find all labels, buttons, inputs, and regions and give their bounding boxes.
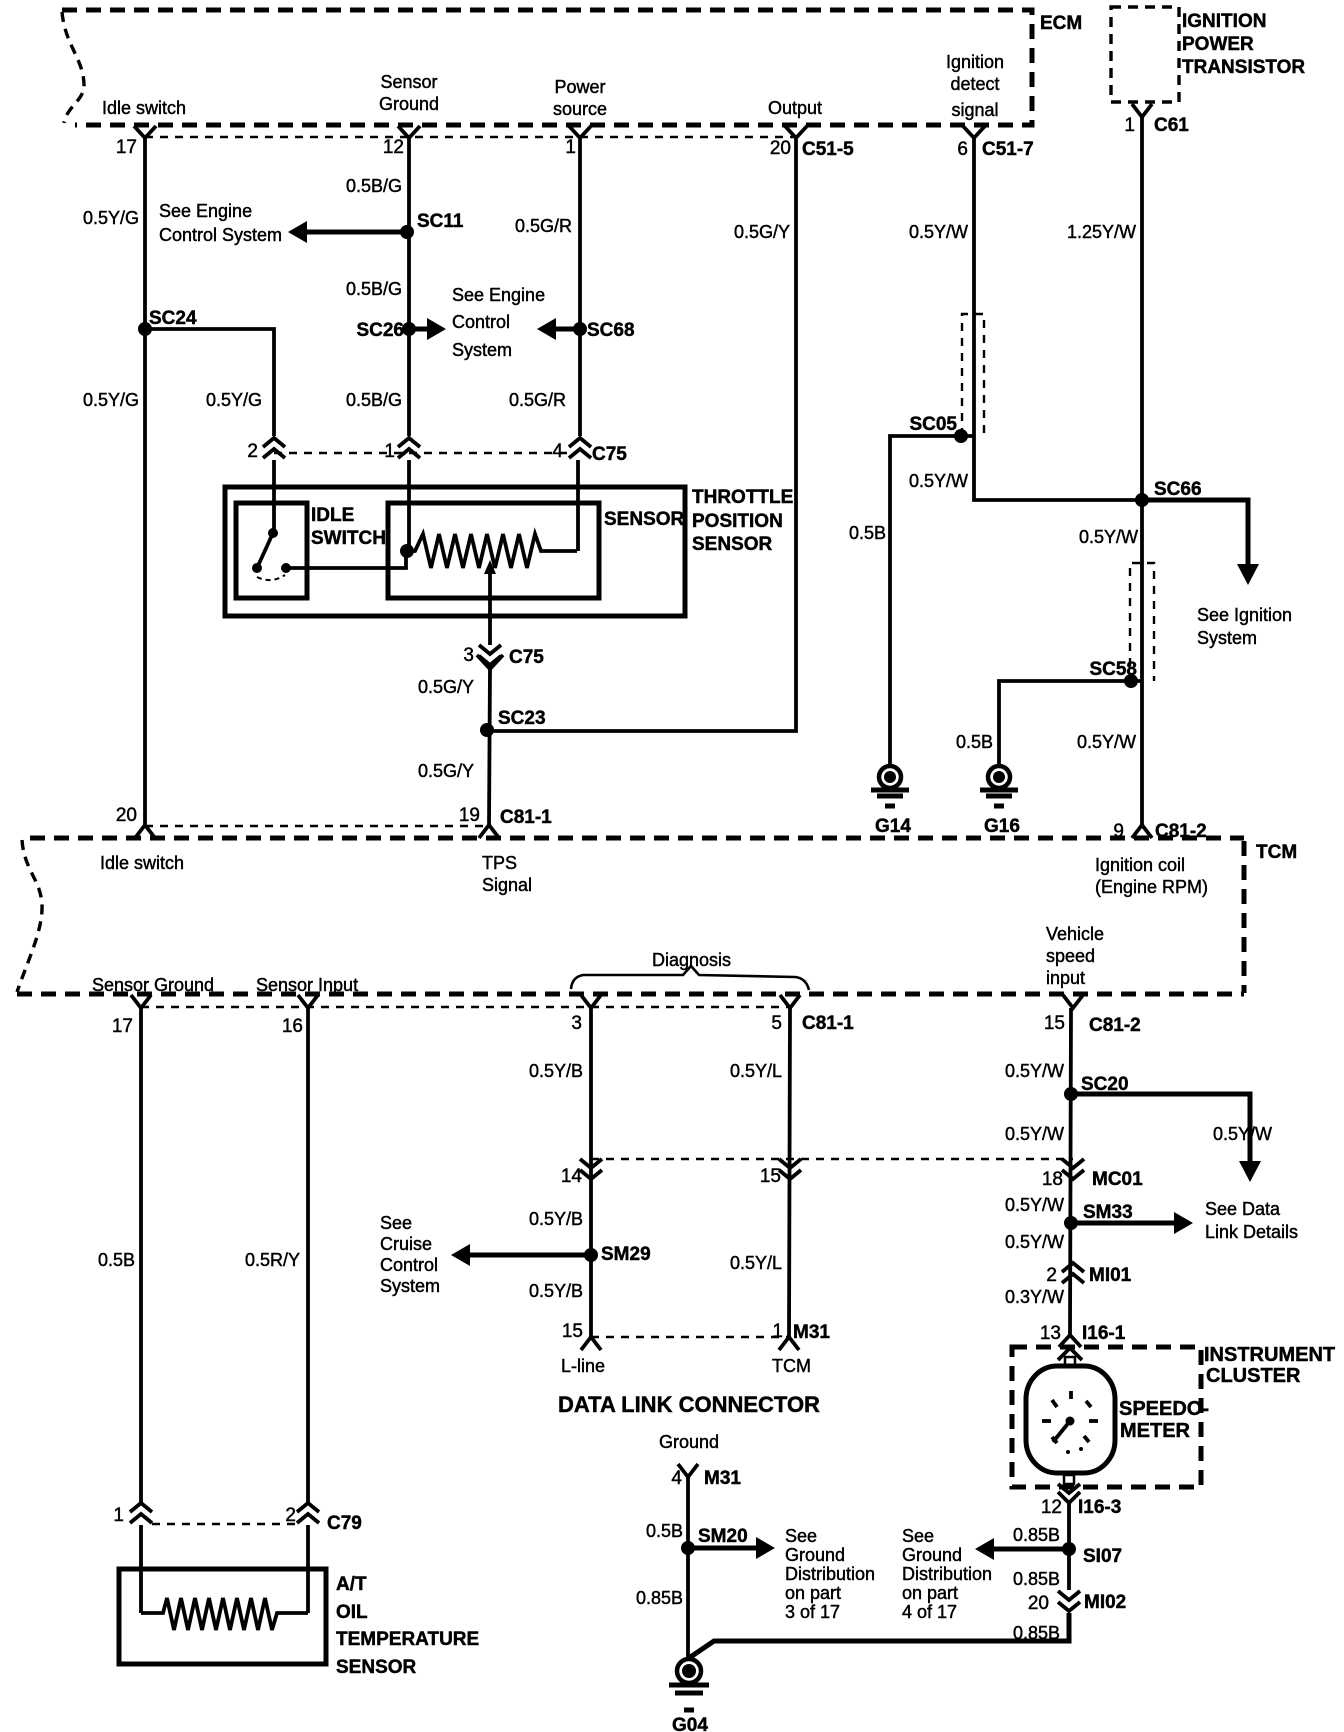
- svg-text:6: 6: [957, 139, 968, 160]
- idle switch contact left: [252, 563, 262, 573]
- pin 1 ECM: [565, 126, 591, 158]
- svg-text:SC24: SC24: [149, 308, 197, 329]
- connector C79 thin dashed: [152, 1523, 297, 1525]
- wire TPS signal 0.5G/Y: [489, 668, 490, 826]
- splice SC66: [1135, 479, 1202, 507]
- svg-text:1: 1: [772, 1321, 783, 1342]
- pin 15 M31: [561, 1321, 605, 1376]
- svg-text:input: input: [1046, 968, 1085, 988]
- svg-text:See Engine: See Engine: [452, 285, 545, 305]
- svg-text:on part: on part: [785, 1583, 841, 1603]
- svg-text:Idle switch: Idle switch: [102, 98, 186, 118]
- svg-text:0.5Y/B: 0.5Y/B: [529, 1061, 583, 1081]
- svg-text:POSITION: POSITION: [692, 511, 783, 532]
- svg-text:0.5Y/L: 0.5Y/L: [730, 1253, 782, 1273]
- svg-text:0.5Y/W: 0.5Y/W: [1213, 1124, 1272, 1144]
- svg-text:MI02: MI02: [1084, 1592, 1126, 1613]
- svg-text:signal: signal: [951, 100, 998, 120]
- speedometer body: [1026, 1366, 1115, 1473]
- svg-text:TEMPERATURE: TEMPERATURE: [336, 1629, 479, 1650]
- label See Ground Distribution 3 of 17: [785, 1526, 875, 1622]
- svg-text:0.5Y/G: 0.5Y/G: [206, 390, 262, 410]
- wire pin1 into AT sensor: [139, 1525, 143, 1613]
- wire SC24 branch: [145, 329, 274, 436]
- svg-text:ECM: ECM: [1040, 13, 1082, 34]
- splice SM33: [1064, 1202, 1133, 1230]
- connector C51 thin dashed line: [145, 136, 796, 138]
- svg-text:SWITCH: SWITCH: [311, 528, 386, 549]
- svg-text:0.5Y/W: 0.5Y/W: [1005, 1232, 1064, 1252]
- svg-text:Distribution: Distribution: [902, 1564, 992, 1584]
- pin 3 C81-1: [571, 995, 601, 1034]
- svg-text:See: See: [902, 1526, 934, 1546]
- label See Ignition System: [1197, 605, 1292, 648]
- svg-text:0.5Y/W: 0.5Y/W: [909, 471, 968, 491]
- svg-text:13: 13: [1040, 1323, 1061, 1344]
- svg-text:2: 2: [285, 1505, 296, 1526]
- svg-text:CLUSTER: CLUSTER: [1206, 1365, 1301, 1387]
- node Vehicle speed input label: [1046, 924, 1104, 988]
- TCM box: [17, 838, 1244, 994]
- svg-text:G04: G04: [672, 1715, 708, 1732]
- speedometer face ticks: [1042, 1391, 1098, 1443]
- svg-text:3: 3: [463, 645, 474, 666]
- svg-text:1: 1: [565, 137, 576, 158]
- svg-text:0.5B: 0.5B: [956, 732, 993, 752]
- resistor AT oil temp: [141, 1598, 308, 1630]
- svg-text:0.5B: 0.5B: [98, 1250, 135, 1270]
- svg-text:TRANSISTOR: TRANSISTOR: [1182, 57, 1305, 78]
- svg-text:METER: METER: [1120, 1420, 1191, 1442]
- svg-text:See Ignition: See Ignition: [1197, 605, 1292, 625]
- svg-text:SC66: SC66: [1154, 479, 1202, 500]
- svg-text:0.5Y/W: 0.5Y/W: [1005, 1061, 1064, 1081]
- svg-text:A/T: A/T: [336, 1574, 367, 1595]
- wire ignition detect 0.5Y/W: [974, 138, 1142, 500]
- svg-text:MI01: MI01: [1089, 1265, 1132, 1286]
- svg-text:SC26: SC26: [356, 320, 404, 341]
- ignition power transistor box: [1111, 7, 1179, 102]
- svg-text:source: source: [553, 99, 607, 119]
- svg-text:IDLE: IDLE: [311, 505, 354, 526]
- wire pin4 into sensor: [576, 460, 580, 551]
- pin 9 C81-2: [1113, 821, 1206, 842]
- ECM box: [62, 10, 1032, 125]
- pin 12 ECM: [383, 126, 420, 158]
- svg-text:SC05: SC05: [909, 414, 957, 435]
- svg-text:5: 5: [771, 1013, 782, 1034]
- svg-text:15: 15: [760, 1166, 781, 1187]
- pin 17 TCM: [112, 995, 151, 1037]
- connector M31 thin dashed: [591, 1336, 789, 1338]
- pin 4 M31: [671, 1464, 741, 1489]
- wire diagnosis right 0.5Y/L: [789, 1008, 790, 1337]
- diagnosis brace: [571, 966, 809, 990]
- svg-text:1: 1: [1124, 115, 1135, 136]
- svg-text:Ignition coil: Ignition coil: [1095, 855, 1185, 875]
- pin 18 MC01: [1042, 1159, 1143, 1190]
- wire SC66 arrow to ignition system: [1142, 500, 1259, 585]
- INSTRUMENT CLUSTER label: [1204, 1344, 1335, 1387]
- svg-text:C75: C75: [509, 647, 544, 668]
- svg-text:INSTRUMENT: INSTRUMENT: [1204, 1344, 1335, 1366]
- label See Ground Distribution 4 of 17: [902, 1526, 992, 1622]
- svg-text:12: 12: [383, 137, 404, 158]
- svg-text:See Data: See Data: [1205, 1199, 1281, 1219]
- wire SM33 arrow right: [1071, 1212, 1193, 1234]
- wire idle switch output: [286, 551, 406, 568]
- connector C75 thin dashed line: [274, 452, 576, 454]
- svg-text:15: 15: [562, 1321, 583, 1342]
- svg-text:(Engine RPM): (Engine RPM): [1095, 877, 1208, 897]
- svg-text:3 of 17: 3 of 17: [785, 1602, 840, 1622]
- svg-text:C61: C61: [1154, 115, 1189, 136]
- wire SC20 arrow to data link details: [1071, 1094, 1261, 1182]
- wire SI07 arrow left: [975, 1538, 1069, 1560]
- svg-text:on part: on part: [902, 1583, 958, 1603]
- svg-text:1.25Y/W: 1.25Y/W: [1067, 222, 1136, 242]
- SPEEDO-METER label: [1119, 1398, 1209, 1442]
- svg-text:C51-5: C51-5: [802, 139, 854, 160]
- svg-text:SENSOR: SENSOR: [336, 1657, 417, 1678]
- wire SC26 arrow right: [409, 318, 446, 340]
- svg-text:16: 16: [282, 1016, 303, 1037]
- svg-text:SENSOR: SENSOR: [692, 534, 773, 555]
- wire pin1 into sensor: [407, 460, 411, 546]
- svg-text:C81-1: C81-1: [500, 807, 552, 828]
- svg-text:System: System: [380, 1276, 440, 1296]
- svg-text:0.5B: 0.5B: [646, 1521, 683, 1541]
- splice SC24: [138, 308, 197, 336]
- A/T OIL TEMPERATURE SENSOR label: [336, 1574, 479, 1678]
- svg-text:17: 17: [112, 1016, 133, 1037]
- sensor box: [388, 503, 599, 598]
- wire ground 0.5B: [686, 1477, 690, 1659]
- speedometer terminal bottom: [1064, 1475, 1074, 1484]
- connector M thin dashed mid: [591, 1158, 1073, 1160]
- IDLE SWITCH label: [311, 505, 386, 549]
- splice SC20: [1064, 1074, 1129, 1101]
- svg-text:17: 17: [116, 137, 137, 158]
- AT oil temperature sensor box: [119, 1569, 326, 1664]
- wire diagnosis left 0.5Y/B: [589, 1008, 593, 1337]
- svg-text:IGNITION: IGNITION: [1182, 11, 1266, 32]
- pin 20 TCM symbol: [135, 825, 155, 838]
- svg-text:0.5Y/W: 0.5Y/W: [1079, 527, 1138, 547]
- ground G16: [980, 766, 1020, 837]
- svg-text:Control System: Control System: [159, 225, 282, 245]
- svg-text:0.3Y/W: 0.3Y/W: [1005, 1287, 1064, 1307]
- pin 2 C79: [285, 1503, 361, 1534]
- pin 1 M31: [772, 1321, 830, 1376]
- svg-text:G14: G14: [875, 816, 911, 837]
- wire power source 0.5G/R: [578, 138, 582, 436]
- svg-text:0.5G/R: 0.5G/R: [509, 390, 566, 410]
- svg-text:Ignition: Ignition: [946, 52, 1004, 72]
- ground G04: [669, 1659, 709, 1732]
- svg-text:detect: detect: [950, 74, 999, 94]
- svg-text:C81-1: C81-1: [802, 1013, 854, 1034]
- idle switch travel arc dashed: [257, 575, 285, 580]
- svg-text:C81-2: C81-2: [1089, 1015, 1141, 1036]
- pin 15 M connector right: [760, 1159, 801, 1187]
- shield dashed box SC05: [962, 314, 984, 436]
- svg-text:SC68: SC68: [587, 320, 635, 341]
- throttle position sensor outer box: [225, 487, 685, 616]
- svg-text:20: 20: [1028, 1593, 1049, 1614]
- svg-text:THROTTLE: THROTTLE: [692, 487, 793, 508]
- wire SC58 to G16: [999, 681, 1142, 765]
- svg-text:0.5G/Y: 0.5G/Y: [418, 761, 474, 781]
- splice SM29: [584, 1244, 651, 1265]
- svg-text:SPEEDO-: SPEEDO-: [1119, 1398, 1209, 1420]
- svg-text:SC23: SC23: [498, 708, 546, 729]
- svg-text:DATA LINK CONNECTOR: DATA LINK CONNECTOR: [558, 1392, 820, 1417]
- svg-text:0.5B/G: 0.5B/G: [346, 279, 402, 299]
- svg-text:0.5G/Y: 0.5G/Y: [418, 677, 474, 697]
- svg-text:Control: Control: [452, 312, 510, 332]
- wire sensor input 0.5R/Y: [306, 1008, 310, 1503]
- svg-text:14: 14: [561, 1166, 583, 1187]
- svg-text:0.5B: 0.5B: [849, 523, 886, 543]
- pin 4 C75: [552, 438, 627, 465]
- wire speedometer 0.85B: [1067, 1503, 1071, 1590]
- svg-text:TCM: TCM: [772, 1356, 811, 1376]
- svg-text:System: System: [452, 340, 512, 360]
- svg-text:4 of 17: 4 of 17: [902, 1602, 957, 1622]
- svg-text:12: 12: [1041, 1497, 1062, 1518]
- pin 5 C81-1: [771, 995, 854, 1034]
- svg-text:MC01: MC01: [1092, 1169, 1143, 1190]
- svg-text:20: 20: [116, 805, 137, 826]
- splice SC26: [356, 320, 416, 341]
- wire SC05 to G14: [890, 436, 974, 765]
- svg-text:System: System: [1197, 628, 1257, 648]
- speedometer terminal top: [1065, 1357, 1075, 1366]
- svg-text:0.5Y/B: 0.5Y/B: [529, 1281, 583, 1301]
- svg-text:See: See: [380, 1213, 412, 1233]
- svg-text:0.5G/Y: 0.5G/Y: [734, 222, 790, 242]
- wire SM29 arrow to cruise control: [451, 1244, 591, 1266]
- wire pin2 into idle switch: [272, 460, 276, 533]
- connector C81-1 bottom thin dashed: [141, 1006, 790, 1008]
- svg-text:2: 2: [247, 441, 258, 462]
- svg-text:C79: C79: [327, 1513, 362, 1534]
- wire SM20 arrow right: [688, 1537, 775, 1559]
- wire pin2 into AT sensor: [306, 1525, 310, 1613]
- svg-text:20: 20: [770, 138, 791, 159]
- svg-text:M31: M31: [793, 1322, 830, 1343]
- svg-text:Output: Output: [768, 98, 822, 118]
- svg-text:Distribution: Distribution: [785, 1564, 875, 1584]
- svg-text:0.5G/R: 0.5G/R: [515, 216, 572, 236]
- svg-text:C75: C75: [592, 444, 627, 465]
- node Ignition coil label: [1095, 855, 1208, 897]
- svg-text:SM29: SM29: [601, 1244, 651, 1265]
- svg-text:speed: speed: [1046, 946, 1095, 966]
- wiper arrow: [484, 560, 496, 645]
- svg-text:0.5Y/W: 0.5Y/W: [909, 222, 968, 242]
- svg-text:OIL: OIL: [336, 1602, 368, 1623]
- svg-text:SC58: SC58: [1089, 659, 1137, 680]
- svg-text:1: 1: [113, 1505, 124, 1526]
- splice SM20: [681, 1526, 748, 1555]
- pin 3 C75: [463, 645, 544, 669]
- svg-text:15: 15: [1044, 1013, 1065, 1034]
- idle switch contact top: [268, 528, 278, 538]
- splice SI07: [1062, 1542, 1122, 1567]
- pin 20 C51-5: [770, 126, 854, 160]
- svg-text:TCM: TCM: [1256, 842, 1297, 863]
- connector C81-1 top thin dashed: [145, 825, 489, 827]
- svg-text:0.5Y/W: 0.5Y/W: [1005, 1124, 1064, 1144]
- speedometer needle: [1053, 1417, 1083, 1455]
- svg-text:SC11: SC11: [417, 211, 464, 232]
- svg-text:I16-1: I16-1: [1082, 1323, 1126, 1344]
- pin 17 ECM: [116, 126, 156, 158]
- svg-text:Ground: Ground: [379, 94, 439, 114]
- label See Engine Control System (SC11): [159, 201, 282, 245]
- label See Cruise Control System: [380, 1213, 440, 1296]
- svg-text:SM33: SM33: [1083, 1202, 1133, 1223]
- idle switch box: [236, 503, 307, 598]
- svg-text:3: 3: [571, 1013, 582, 1034]
- svg-text:Idle switch: Idle switch: [100, 853, 184, 873]
- node TPS Signal label: [482, 853, 532, 895]
- pin 16 TCM: [282, 995, 318, 1037]
- svg-text:Link Details: Link Details: [1205, 1222, 1298, 1242]
- svg-text:L-line: L-line: [561, 1356, 605, 1376]
- splice SC05: [909, 414, 968, 443]
- splice SC68: [573, 320, 635, 341]
- pin 2 C75: [247, 438, 285, 462]
- wire idle switch 0.5Y/G: [143, 138, 147, 826]
- node sensor ground junction: [400, 544, 414, 558]
- svg-text:Ground: Ground: [902, 1545, 962, 1565]
- label See Engine Control System (SC26/SC68): [452, 285, 545, 360]
- wire vehicle speed 0.5Y/W: [1070, 1008, 1071, 1335]
- idle switch contact right: [281, 563, 291, 573]
- pin 2 MI01: [1046, 1263, 1131, 1286]
- svg-text:Control: Control: [380, 1255, 438, 1275]
- svg-text:Ground: Ground: [659, 1432, 719, 1452]
- svg-text:Ground: Ground: [785, 1545, 845, 1565]
- pin 19 TCM symbol: [479, 825, 499, 838]
- IGNITION POWER TRANSISTOR label: [1182, 11, 1305, 78]
- pin 14 M connector: [561, 1159, 602, 1187]
- svg-text:0.85B: 0.85B: [1013, 1569, 1060, 1589]
- svg-text:Vehicle: Vehicle: [1046, 924, 1104, 944]
- svg-text:0.5Y/W: 0.5Y/W: [1077, 732, 1136, 752]
- pin 20 MI02: [1028, 1591, 1126, 1614]
- wire output 0.5G/Y: [489, 138, 796, 731]
- svg-text:Signal: Signal: [482, 875, 532, 895]
- svg-text:0.85B: 0.85B: [636, 1588, 683, 1608]
- svg-text:M31: M31: [704, 1468, 741, 1489]
- shield dashed box SC58: [1130, 563, 1154, 681]
- svg-text:19: 19: [459, 805, 480, 826]
- svg-text:0.5B/G: 0.5B/G: [346, 390, 402, 410]
- svg-text:SENSOR: SENSOR: [604, 509, 685, 530]
- svg-text:2: 2: [1046, 1265, 1057, 1286]
- svg-text:4: 4: [552, 441, 563, 462]
- svg-text:TPS: TPS: [482, 853, 517, 873]
- svg-text:I16-3: I16-3: [1078, 1497, 1121, 1518]
- svg-text:0.5B/G: 0.5B/G: [346, 176, 402, 196]
- svg-text:See Engine: See Engine: [159, 201, 252, 221]
- svg-text:0.5Y/G: 0.5Y/G: [83, 208, 139, 228]
- pin 6 C51-7: [957, 126, 1033, 160]
- label See Data Link Details: [1205, 1199, 1298, 1242]
- pin 1 C75: [384, 438, 420, 462]
- idle switch blade: [257, 533, 273, 568]
- svg-text:18: 18: [1042, 1169, 1063, 1190]
- pin 1 C79: [113, 1503, 152, 1526]
- svg-text:Power: Power: [554, 77, 605, 97]
- svg-text:SI07: SI07: [1083, 1546, 1122, 1567]
- pin 13 I16-1: [1040, 1323, 1126, 1360]
- svg-text:See: See: [785, 1526, 817, 1546]
- svg-text:0.5R/Y: 0.5R/Y: [245, 1250, 300, 1270]
- svg-text:Sensor Input: Sensor Input: [256, 975, 358, 995]
- svg-text:1: 1: [384, 441, 395, 462]
- svg-text:0.5Y/L: 0.5Y/L: [730, 1061, 782, 1081]
- svg-text:Sensor Ground: Sensor Ground: [92, 975, 214, 995]
- wire MI02 to G04: [689, 1613, 1069, 1658]
- pin 15 C81-2: [1044, 995, 1141, 1036]
- svg-text:0.5Y/W: 0.5Y/W: [1005, 1195, 1064, 1215]
- svg-text:G16: G16: [984, 816, 1020, 837]
- instrument cluster box: [1012, 1347, 1201, 1487]
- ground G14: [871, 766, 911, 837]
- resistor TPS element: [407, 534, 577, 568]
- THROTTLE POSITION SENSOR label: [692, 487, 793, 555]
- wire sensor ground 0.5B: [139, 1008, 143, 1503]
- svg-text:0.5Y/B: 0.5Y/B: [529, 1209, 583, 1229]
- pin 1 C61: [1124, 104, 1189, 136]
- svg-text:C51-7: C51-7: [982, 139, 1034, 160]
- svg-text:SM20: SM20: [698, 1526, 748, 1547]
- splice SC11: [400, 211, 464, 239]
- wire SC68 arrow left: [537, 318, 580, 340]
- splice SC58: [1089, 659, 1138, 688]
- svg-text:0.85B: 0.85B: [1013, 1525, 1060, 1545]
- wire 1.25Y/W from C61: [1140, 117, 1144, 826]
- svg-text:0.5Y/G: 0.5Y/G: [83, 390, 139, 410]
- splice SC23: [480, 708, 546, 737]
- svg-text:4: 4: [671, 1468, 682, 1489]
- pin 12 I16-3: [1041, 1484, 1121, 1518]
- svg-text:Sensor: Sensor: [380, 72, 437, 92]
- wire sensor ground 0.5B/G: [407, 138, 411, 436]
- pin 19 C81-1: [459, 805, 552, 828]
- wire SC11 arrow to see engine control system: [288, 221, 407, 243]
- svg-text:Cruise: Cruise: [380, 1234, 432, 1254]
- svg-text:POWER: POWER: [1182, 34, 1254, 55]
